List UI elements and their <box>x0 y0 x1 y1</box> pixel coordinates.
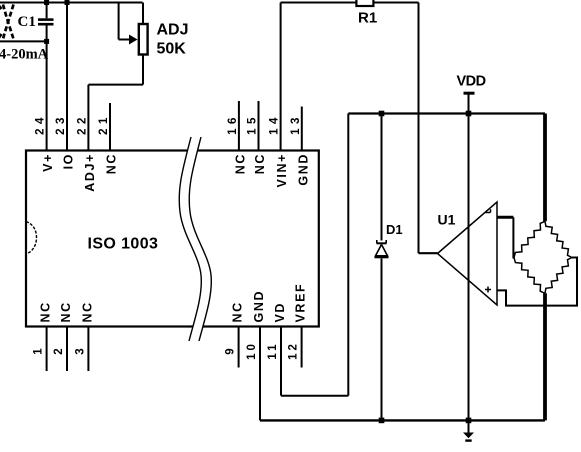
op-amp plus input mark <box>485 287 491 293</box>
node: D1 bottom junction <box>379 418 385 424</box>
wire: top-left horizontal <box>0 2 143 4</box>
op-amp minus input mark <box>486 209 491 212</box>
wire: pin 16 stub <box>238 101 240 151</box>
wire: pin 12 stub <box>301 327 303 368</box>
svg-text:ADJ+: ADJ+ <box>83 153 97 192</box>
svg-text:50K: 50K <box>157 41 187 58</box>
bridge arm top-left <box>514 221 545 257</box>
capacitor C1 <box>38 3 54 41</box>
op-amp U1 <box>438 202 498 305</box>
svg-text:NC: NC <box>105 153 119 174</box>
wire: pin 24 drop <box>46 41 48 150</box>
diode D1 <box>375 114 389 421</box>
svg-text:V+: V+ <box>41 153 55 172</box>
svg-text:12: 12 <box>288 341 300 360</box>
svg-text:ADJ: ADJ <box>157 22 189 39</box>
wire: op-amp bottom input jog <box>497 258 577 306</box>
wire: pin 11 drop <box>280 327 282 396</box>
svg-text:GND: GND <box>252 290 266 323</box>
wire: thick VDD drop to bridge top <box>543 114 547 222</box>
svg-text:VREF: VREF <box>294 283 308 323</box>
svg-text:VIN+: VIN+ <box>275 153 289 188</box>
bridge arm left-bottom <box>514 258 545 294</box>
wire: bottom ground rail <box>260 419 545 421</box>
svg-text:24: 24 <box>35 113 47 135</box>
svg-text:R1: R1 <box>358 10 377 27</box>
node: C1 bottom junction <box>44 39 49 44</box>
node: C1 top junction <box>44 0 49 5</box>
svg-text:11: 11 <box>267 341 279 359</box>
wire: VDD long drop to ground <box>468 114 470 433</box>
wire: VDD rail <box>348 112 545 114</box>
svg-text:GND: GND <box>296 153 310 186</box>
wire: R1 right drop to op-amp output <box>418 3 420 254</box>
svg-text:VDD: VDD <box>457 73 486 89</box>
wire: op-amp output <box>419 252 438 254</box>
svg-text:13: 13 <box>290 113 302 135</box>
svg-text:NC: NC <box>253 153 267 174</box>
wire: pin 21 stub <box>109 103 111 151</box>
wire: pin 10 drop to ground rail <box>259 327 261 421</box>
ground symbol <box>463 433 474 439</box>
wire: pin 15 stub <box>258 101 260 151</box>
svg-text:14: 14 <box>269 113 281 135</box>
wire: pin 3 stub <box>87 327 89 372</box>
svg-text:NC: NC <box>231 301 245 322</box>
wire: pin 9 stub <box>238 327 240 368</box>
node: VDD rail junction <box>466 111 472 117</box>
svg-text:U1: U1 <box>438 212 456 228</box>
svg-text:IO: IO <box>62 153 76 169</box>
node: D1 rail junction <box>379 111 385 117</box>
svg-text:1: 1 <box>33 345 45 354</box>
svg-text:NC: NC <box>233 153 247 174</box>
bridge arm right-bottom <box>545 258 572 294</box>
wire: thick bridge bottom drop to ground rail <box>543 293 547 420</box>
svg-text:2: 2 <box>53 345 65 354</box>
wire: op-amp top input to bridge left <box>497 216 513 219</box>
svg-text:NC: NC <box>59 301 73 322</box>
wire: pin 23 drop <box>66 3 68 151</box>
IC ISO 1003 <box>26 151 319 327</box>
twisted-pair symbol <box>0 5 14 40</box>
svg-text:ISO 1003: ISO 1003 <box>88 236 159 253</box>
bridge arm top-right <box>545 221 572 257</box>
svg-text:9: 9 <box>225 345 237 354</box>
IC notch <box>26 222 37 255</box>
svg-text:C1: C1 <box>18 14 36 30</box>
svg-text:15: 15 <box>247 113 259 135</box>
wire: pin 14 riser to R1 <box>280 3 282 151</box>
svg-text:VD: VD <box>273 302 287 323</box>
svg-text:4-20mA: 4-20mA <box>0 47 49 63</box>
svg-text:16: 16 <box>227 113 239 135</box>
resistor R1 <box>281 2 357 4</box>
svg-text:NC: NC <box>80 301 94 322</box>
wire: pin 2 stub <box>66 327 68 372</box>
svg-text:D1: D1 <box>386 222 403 237</box>
break squiggle through IC <box>179 137 211 341</box>
svg-text:21: 21 <box>98 113 110 135</box>
svg-text:NC: NC <box>39 301 53 322</box>
node: ground junction <box>466 418 472 424</box>
node: pin23 top junction <box>65 0 70 5</box>
wire: lower-left horizontal (4-20mA return) <box>0 40 47 42</box>
potentiometer ADJ 50K <box>88 3 147 151</box>
svg-text:23: 23 <box>55 113 67 135</box>
svg-text:22: 22 <box>76 113 88 135</box>
wire: pin 13 stub <box>301 107 303 151</box>
svg-text:10: 10 <box>246 341 258 360</box>
wire: pin 1 stub <box>46 327 48 372</box>
svg-text:3: 3 <box>74 345 86 354</box>
wire: rail left drop to pin 11 jog <box>347 114 349 396</box>
